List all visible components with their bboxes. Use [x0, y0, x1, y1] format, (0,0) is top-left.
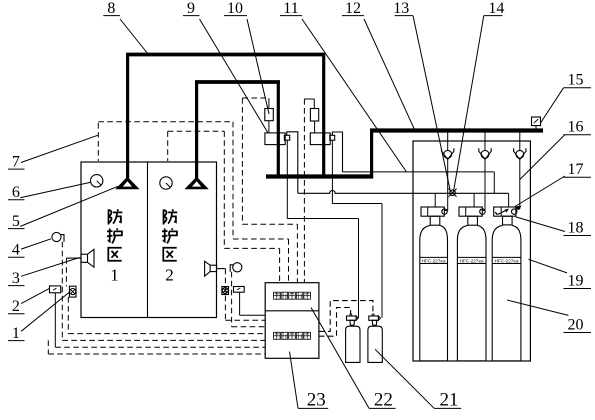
svg-text:1: 1: [12, 325, 20, 342]
svg-text:20: 20: [568, 316, 584, 333]
svg-text:6: 6: [12, 184, 20, 201]
svg-text:14: 14: [488, 0, 504, 17]
svg-text:HFC-227ea: HFC-227ea: [422, 258, 446, 263]
svg-text:18: 18: [568, 219, 584, 236]
svg-text:5: 5: [12, 213, 20, 230]
svg-text:7: 7: [12, 154, 20, 171]
svg-text:10: 10: [227, 0, 243, 17]
svg-text:2: 2: [165, 266, 174, 285]
svg-text:1: 1: [110, 266, 119, 285]
svg-text:3: 3: [12, 270, 20, 287]
svg-text:23: 23: [307, 390, 326, 411]
svg-text:17: 17: [568, 161, 584, 178]
svg-text:HFC-227ea: HFC-227ea: [460, 258, 484, 263]
svg-text:11: 11: [283, 0, 298, 17]
svg-text:9: 9: [187, 0, 195, 17]
svg-text:16: 16: [568, 119, 584, 136]
svg-text:8: 8: [107, 0, 115, 17]
svg-text:15: 15: [568, 72, 584, 89]
svg-text:4: 4: [12, 242, 20, 259]
svg-text:19: 19: [568, 272, 584, 289]
svg-text:21: 21: [440, 390, 459, 411]
svg-text:HFC-227ea: HFC-227ea: [495, 258, 519, 263]
svg-text:12: 12: [345, 0, 361, 17]
svg-text:13: 13: [393, 0, 409, 17]
svg-text:2: 2: [12, 298, 20, 315]
svg-text:22: 22: [374, 390, 393, 411]
